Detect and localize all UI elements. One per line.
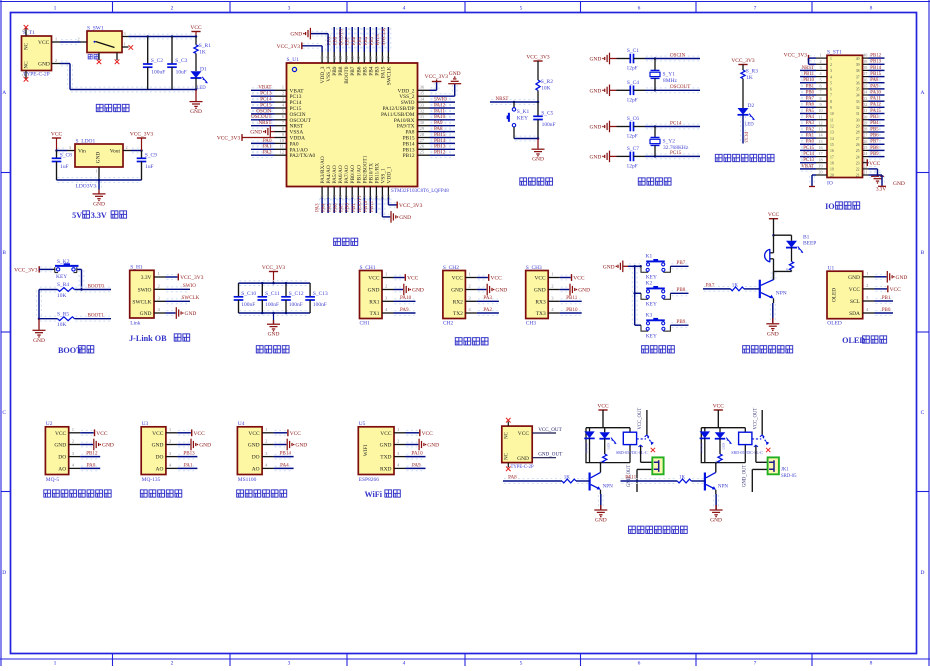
wire BOOT1 row <box>40 315 57 317</box>
svg-text:S_C6: S_C6 <box>627 116 639 122</box>
svg-text:PB12: PB12 <box>403 153 415 159</box>
svg-text:S_LDO1: S_LDO1 <box>76 138 96 144</box>
wire net PB15 (right) <box>870 73 884 75</box>
svg-text:29: 29 <box>863 120 867 125</box>
wire net PA10 (right) <box>870 92 884 94</box>
svg-text:PB7: PB7 <box>677 260 686 266</box>
svg-text:PB1: PB1 <box>882 295 891 301</box>
svg-text:D1: D1 <box>200 66 207 72</box>
svg-text:40: 40 <box>369 55 374 60</box>
svg-text:GND: GND <box>589 57 601 63</box>
capacitor C9 1uF <box>141 151 143 159</box>
crystal S_Y1 8MHz <box>654 59 656 71</box>
svg-text:48: 48 <box>321 55 326 60</box>
wire net PB11 (left) <box>801 73 815 75</box>
svg-text:8: 8 <box>830 100 832 104</box>
power flag 3.3V at ST1 pin 21 <box>870 172 882 174</box>
svg-text:GND: GND <box>595 518 607 524</box>
svg-text:PB11: PB11 <box>369 200 375 212</box>
svg-text:30: 30 <box>863 114 867 119</box>
U1 pin 25 PB12 <box>418 154 430 156</box>
wire gnd bus <box>36 291 38 318</box>
svg-text:34: 34 <box>856 94 860 98</box>
wire net PB9 <box>331 28 333 51</box>
svg-text:31: 31 <box>420 115 425 120</box>
U1 pin 46 PB9 <box>333 52 335 63</box>
svg-text:PA7: PA7 <box>706 283 715 289</box>
svg-text:PB9: PB9 <box>677 319 686 325</box>
svg-text:SDA: SDA <box>849 311 860 317</box>
svg-text:VCC: VCC <box>518 431 530 437</box>
svg-text:VCC_3V3: VCC_3V3 <box>130 131 154 137</box>
svg-text:SCL: SCL <box>850 299 860 305</box>
wire net BOOT0 <box>343 28 345 51</box>
wire net PB1 <box>876 298 893 300</box>
svg-text:1N4148: 1N4148 <box>700 443 704 454</box>
transistor (relay driver) NPN <box>588 473 590 491</box>
wire net PA1 <box>178 465 196 467</box>
svg-text:5V: 5V <box>72 211 82 220</box>
svg-text:17: 17 <box>818 151 822 156</box>
svg-text:34: 34 <box>420 98 425 103</box>
junction <box>633 292 636 295</box>
wire net VBAT (left) <box>801 166 815 168</box>
svg-text:36: 36 <box>420 86 425 91</box>
svg-text:S_C5: S_C5 <box>541 111 553 117</box>
ST1 pin 40 <box>863 57 869 59</box>
svg-text:AO: AO <box>156 466 164 472</box>
ST1 pin 4 <box>816 76 827 78</box>
svg-text:PB0: PB0 <box>345 203 351 212</box>
resistor R3 1K <box>742 65 744 71</box>
svg-text:29: 29 <box>420 127 425 132</box>
ground at U1 pin 23 VSS_1 <box>379 199 381 216</box>
wire net PA3 <box>478 298 498 300</box>
ST1 pin 23 <box>863 162 869 164</box>
svg-text:VCC_3V3: VCC_3V3 <box>217 136 241 142</box>
ground (S_C1 row) <box>605 53 610 65</box>
svg-text:3.3V: 3.3V <box>141 275 152 281</box>
wire net PA0 <box>81 465 99 467</box>
svg-text:GND: GND <box>399 215 411 221</box>
svg-text:S_C7: S_C7 <box>627 146 639 152</box>
svg-text:GND: GND <box>578 288 590 294</box>
svg-text:100nF: 100nF <box>265 302 279 308</box>
svg-text:GND: GND <box>190 109 202 115</box>
wire net PA7 <box>704 286 730 288</box>
LED branch wire <box>774 234 792 236</box>
svg-text:VCC: VCC <box>768 212 780 218</box>
ST1 pin 25 <box>863 149 869 151</box>
svg-text:NC: NC <box>24 61 30 69</box>
svg-text:U1: U1 <box>828 265 835 271</box>
svg-text:PB10/TX: PB10/TX <box>368 163 374 184</box>
svg-text:26: 26 <box>856 143 860 147</box>
svg-text:GND: GND <box>248 443 260 449</box>
svg-text:S_R5: S_R5 <box>57 311 69 317</box>
wire net PB7 (right) <box>870 141 884 143</box>
svg-text:VCC: VCC <box>290 431 302 437</box>
svg-text:PB10: PB10 <box>566 307 578 313</box>
wire BOOT0 row <box>40 286 57 288</box>
svg-text:KEY: KEY <box>56 274 67 280</box>
svg-text:PB6: PB6 <box>870 134 879 139</box>
svg-text:OSCOUT: OSCOUT <box>670 84 691 90</box>
U1 pin 14 PA4/AO <box>327 187 329 198</box>
ground (S_C7 row) <box>605 151 610 163</box>
svg-text:12pF: 12pF <box>627 163 638 169</box>
svg-text:12: 12 <box>830 125 834 129</box>
caption 声光报警电路 <box>743 346 750 353</box>
svg-text:VCC: VCC <box>491 276 503 282</box>
wire net PC15 <box>646 153 699 155</box>
svg-text:BOOT0: BOOT0 <box>88 283 105 289</box>
svg-text:5: 5 <box>520 6 523 12</box>
svg-text:GND: GND <box>451 288 463 294</box>
svg-text:100nF: 100nF <box>542 122 556 128</box>
wire net PA6 (left) <box>801 104 815 106</box>
junction <box>654 57 657 60</box>
LDO GND pin <box>98 167 100 180</box>
svg-text:7: 7 <box>754 6 757 12</box>
svg-text:RX2: RX2 <box>453 299 464 305</box>
junction <box>261 282 264 285</box>
svg-text:100uF: 100uF <box>151 70 165 76</box>
connector TYPE-C-2P (relay power) <box>502 426 532 463</box>
svg-text:GND: GND <box>896 275 908 281</box>
svg-text:GND: GND <box>710 518 722 524</box>
wire net PB3 <box>373 28 375 51</box>
U1 pin 26 PB13 <box>418 148 430 150</box>
pushbutton K2 KEY <box>635 292 641 294</box>
svg-text:2: 2 <box>830 63 832 67</box>
svg-text:K1: K1 <box>646 253 653 259</box>
svg-text:GND: GND <box>268 332 280 338</box>
U1 pin 48 VDD_3 <box>321 52 323 63</box>
svg-text:S_C9: S_C9 <box>145 153 157 159</box>
U1 pin 15 PA5/AO <box>333 187 335 198</box>
svg-text:PB10: PB10 <box>363 200 369 212</box>
svg-text:VCC: VCC <box>407 276 419 282</box>
U1 pin 41 PB5 <box>363 52 365 63</box>
svg-text:NC: NC <box>504 452 510 460</box>
svg-text:VCC_3V3: VCC_3V3 <box>180 275 204 281</box>
ST1 pin 18 <box>816 162 827 164</box>
ST1 pin 17 <box>816 156 827 158</box>
wire net PA7 (left) <box>801 98 815 100</box>
ST1 pin 32 <box>863 106 869 108</box>
svg-text:5: 5 <box>830 81 832 85</box>
power flag VCC (OLED) <box>876 286 887 288</box>
svg-text:19: 19 <box>830 168 834 172</box>
junction <box>772 234 775 237</box>
wire net SWCLK <box>167 298 190 300</box>
wire net PA2 (left) <box>801 129 815 131</box>
svg-text:B: B <box>2 250 6 256</box>
U1 pin 8 VSSA <box>275 131 287 133</box>
wire net GND_OUT <box>532 457 556 459</box>
svg-text:GND: GND <box>295 443 307 449</box>
wire net PB7 <box>671 263 687 265</box>
svg-text:Vin: Vin <box>78 149 86 155</box>
ST1 pin 34 <box>863 94 869 96</box>
svg-text:10: 10 <box>279 139 284 144</box>
wire net OSCOUT <box>646 87 699 89</box>
relay drive rails <box>701 428 745 463</box>
U1 pin 17 PA7/AO <box>345 187 347 198</box>
svg-text:39: 39 <box>856 63 860 67</box>
svg-text:TXD: TXD <box>380 455 391 461</box>
wire net VBAT <box>252 87 274 89</box>
capacitor C3 10uF <box>171 37 173 65</box>
svg-text:S_C4: S_C4 <box>627 80 639 86</box>
svg-text:45: 45 <box>339 55 344 60</box>
power flag VCC_3V3 at U1 pin 36 <box>431 87 436 89</box>
svg-text:GND: GND <box>603 264 615 270</box>
svg-text:PA6: PA6 <box>806 103 815 108</box>
svg-text:VCC: VCC <box>190 25 202 31</box>
wire net PB3 (right) <box>870 116 884 118</box>
wire net VCC_OUT <box>532 432 556 434</box>
caption 串口电路 <box>455 338 462 345</box>
wire net PB13 <box>178 453 196 455</box>
svg-text:33: 33 <box>420 103 425 108</box>
ground (U4) <box>275 441 286 443</box>
svg-text:PC14: PC14 <box>670 120 682 126</box>
svg-text:PB13: PB13 <box>870 60 881 65</box>
power flag VCC (relay coil) <box>598 409 607 411</box>
wire net PA4 <box>325 199 327 213</box>
T1 bottom pin with no-connect <box>25 71 27 79</box>
capacitor S_C1 12pF <box>617 58 631 60</box>
svg-text:10: 10 <box>818 108 822 113</box>
svg-text:25: 25 <box>856 149 860 153</box>
ground at U1 pin 47 <box>325 35 327 51</box>
svg-text:VCC_OUT: VCC_OUT <box>638 408 643 430</box>
ground (CH2) <box>478 286 486 288</box>
ST1 pin 35 <box>863 88 869 90</box>
wire net PC14 <box>646 123 699 125</box>
relay connector bottom no-connect <box>507 463 509 468</box>
module U5 ESP8266 <box>358 427 394 475</box>
ground <box>96 181 98 189</box>
U1 pin 2 PC13 <box>275 95 287 97</box>
svg-text:VCC_3V3: VCC_3V3 <box>526 54 550 60</box>
svg-text:VDD_1: VDD_1 <box>386 166 392 183</box>
caption 主芯片 <box>334 238 341 245</box>
svg-text:S_U1: S_U1 <box>287 57 300 63</box>
svg-text:5: 5 <box>819 77 821 82</box>
relay contact arm <box>637 438 646 440</box>
svg-text:VCC_3V3: VCC_3V3 <box>731 58 755 64</box>
ground at ST1 pin 22 <box>870 166 877 168</box>
caption 晶振电路 <box>638 178 645 185</box>
svg-text:11: 11 <box>280 145 285 150</box>
svg-text:GND: GND <box>848 275 860 281</box>
svg-text:PA3: PA3 <box>483 295 492 301</box>
LED (relay indicator) <box>604 428 606 433</box>
ground (U3) <box>178 441 189 443</box>
svg-text:S_Y1: S_Y1 <box>663 72 676 78</box>
svg-text:PB14: PB14 <box>870 66 881 71</box>
svg-text:U5: U5 <box>359 421 366 427</box>
svg-text:VCC: VCC <box>534 276 546 282</box>
capacitor C5 100nF <box>537 102 539 116</box>
ST1 pin 12 <box>816 125 827 127</box>
ST1 pin 22 <box>863 168 869 170</box>
svg-text:PB8: PB8 <box>677 287 686 293</box>
U1 pin 34 SWIO <box>418 101 430 103</box>
svg-text:8: 8 <box>870 6 873 12</box>
ground (jlink) <box>167 310 175 312</box>
svg-text:OLED: OLED <box>832 288 838 302</box>
svg-text:PA0: PA0 <box>87 462 96 468</box>
svg-text:GND: GND <box>33 338 45 344</box>
power flag VCC_3V3 (reset) <box>533 60 542 62</box>
U1 pin 10 PA0 <box>275 142 287 144</box>
ST1 pin 38 <box>863 69 869 71</box>
relay coil <box>739 432 752 444</box>
svg-text:PB8: PB8 <box>870 146 879 151</box>
ST1 pin 11 <box>816 119 827 121</box>
svg-text:GND: GND <box>93 201 105 207</box>
transistor Q1 NPN <box>759 280 761 299</box>
wire GND to bottom rail <box>61 60 69 62</box>
svg-text:VCC_3V3: VCC_3V3 <box>425 74 449 80</box>
svg-text:S_C11: S_C11 <box>265 291 280 297</box>
svg-text:22: 22 <box>856 168 860 172</box>
module U4 MS1100 <box>237 427 262 475</box>
svg-text:5: 5 <box>520 661 523 667</box>
T1 pin 2 GND <box>52 63 61 65</box>
wire net PB0 (left) <box>801 92 815 94</box>
U1 pin 42 PB6 <box>357 52 359 63</box>
svg-text:GND: GND <box>38 62 50 68</box>
svg-text:TX1: TX1 <box>370 311 380 317</box>
svg-text:S_C3: S_C3 <box>175 58 187 64</box>
svg-text:18: 18 <box>830 161 834 165</box>
svg-text:13: 13 <box>830 131 834 135</box>
wire net NRST <box>252 122 274 124</box>
flyback diode <box>704 428 706 432</box>
svg-text:PB4: PB4 <box>870 121 879 126</box>
wire net PB10 (left) <box>801 79 815 81</box>
svg-text:GND: GND <box>380 443 392 449</box>
svg-text:RX1: RX1 <box>369 299 380 305</box>
capacitor C8 1uF <box>56 151 58 159</box>
wire net PB0 <box>876 310 893 312</box>
caption 甲醛检测模块 <box>237 490 244 497</box>
resistor R5 10K <box>58 317 75 321</box>
svg-text:NRST: NRST <box>258 120 272 126</box>
svg-text:32: 32 <box>856 106 860 110</box>
svg-text:1uF: 1uF <box>145 164 154 170</box>
svg-text:SWCLK: SWCLK <box>132 299 151 305</box>
U1 pin 13 PA3/RX/AO <box>321 187 323 198</box>
ST1 pin 6 <box>816 88 827 90</box>
wire net PB0 <box>349 199 351 213</box>
svg-text:SWCLK: SWCLK <box>386 66 392 85</box>
wire net PA8 (right) <box>870 79 884 81</box>
wire net PB9 <box>671 322 687 324</box>
junction <box>654 125 657 128</box>
junction <box>38 317 41 320</box>
ST1 pin 27 <box>863 137 869 139</box>
transistor (relay driver) NPN <box>704 473 706 491</box>
svg-text:13: 13 <box>818 127 822 132</box>
U1 pin 7 NRST <box>275 125 287 127</box>
svg-text:PB0: PB0 <box>806 90 815 95</box>
U1 pin 30 PA9/TX <box>418 125 430 127</box>
svg-text:Link: Link <box>130 320 141 326</box>
wire net PA1 (left) <box>801 135 815 137</box>
U1 pin 35 VSS_2 <box>418 95 430 97</box>
svg-text:PA2: PA2 <box>806 127 815 132</box>
ground <box>273 313 275 324</box>
pushbutton K1 KEY <box>513 102 515 108</box>
wire T1 to SW1 <box>61 39 80 41</box>
svg-text:6: 6 <box>819 84 821 89</box>
svg-text:GND: GND <box>290 32 302 38</box>
U1 pin 28 PB15 <box>418 137 430 139</box>
svg-text:CH2: CH2 <box>443 321 454 327</box>
svg-text:VCC_3V3: VCC_3V3 <box>784 52 808 58</box>
svg-text:PB10: PB10 <box>803 78 814 83</box>
svg-text:43: 43 <box>351 55 356 60</box>
wire SW1 to VCC rail <box>130 33 196 35</box>
svg-text:26: 26 <box>420 145 425 150</box>
svg-text:PB11: PB11 <box>803 72 814 77</box>
svg-text:1: 1 <box>830 57 832 61</box>
svg-text:19: 19 <box>818 164 822 169</box>
connector CH1 <box>360 271 383 319</box>
svg-text:NRST: NRST <box>496 96 510 102</box>
svg-text:GND: GND <box>532 157 544 163</box>
ground (U5) <box>407 441 418 443</box>
svg-text:46: 46 <box>333 55 338 60</box>
U1 pin 45 PB8 <box>339 52 341 63</box>
ST1 pin 21 <box>863 174 869 176</box>
crystal S_Y2 32.768KHz <box>654 127 656 138</box>
svg-text:PA4/AO: PA4/AO <box>326 165 332 183</box>
svg-text:GND: GND <box>427 443 439 449</box>
svg-text:B1: B1 <box>803 235 810 241</box>
wire net PA0 (left) <box>801 141 815 143</box>
svg-text:S_C2: S_C2 <box>151 58 163 64</box>
ground (keys) <box>618 261 623 273</box>
svg-text:S_C8: S_C8 <box>60 153 72 159</box>
svg-text:6: 6 <box>830 88 832 92</box>
svg-text:PB12: PB12 <box>434 150 446 156</box>
wire net PA9 <box>395 310 415 312</box>
svg-text:SWCLK: SWCLK <box>182 295 200 301</box>
svg-text:VCC: VCC <box>194 431 206 437</box>
wire net PA1 <box>252 146 274 148</box>
resistor R4 10K <box>58 288 75 292</box>
capacitor C2 100uF <box>147 37 149 65</box>
LED D1 <box>191 71 202 78</box>
chip U1 OLED display <box>827 271 863 319</box>
wire net PB14 (right) <box>870 67 884 69</box>
U1 pin 18 PB0/AO <box>351 187 353 198</box>
connector H1 J-Link <box>130 270 154 318</box>
svg-text:PA9: PA9 <box>870 84 879 89</box>
relay connector top no-connect <box>507 422 509 427</box>
ST1 pin 29 <box>863 125 869 127</box>
svg-text:GND: GND <box>495 288 507 294</box>
svg-text:PA4: PA4 <box>280 462 289 468</box>
U1 pin 29 PA8 <box>418 131 430 133</box>
